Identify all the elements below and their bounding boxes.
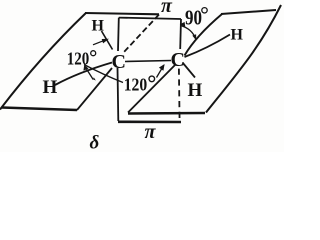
svg-text:π: π	[161, 0, 173, 17]
arc 120 upper: piece above label with arrowhead	[93, 40, 106, 45]
arrowhead to C-C bond (lower 120)	[159, 64, 165, 71]
left plane right edge lower	[77, 68, 112, 110]
arrowhead 90 arc lower end	[192, 34, 196, 40]
C-C sigma bond	[125, 61, 171, 62]
right plane left edge upper	[185, 14, 223, 56]
bond C1 to lower-left H	[55, 63, 112, 86]
arrowhead at top of small arrow (120)	[83, 65, 88, 71]
bond C1 to upper-left H	[102, 31, 113, 50]
right plane left edge lower	[128, 64, 176, 113]
pi box right edge upper	[179, 19, 182, 49]
arrowhead 90 arc upper end	[180, 22, 186, 27]
svg-text:π: π	[145, 121, 157, 143]
pi box top edge	[119, 18, 181, 19]
arrow from lower 120 label to C-C bond	[157, 65, 164, 77]
svg-text:H: H	[43, 77, 58, 98]
svg-text:H: H	[188, 80, 203, 101]
pi box bottom edge	[118, 121, 181, 124]
svg-text:δ: δ	[90, 133, 100, 153]
svg-text:H: H	[231, 27, 244, 44]
svg-text:120: 120	[124, 75, 148, 95]
svg-text:90: 90	[185, 6, 202, 30]
big arc under C1	[84, 65, 123, 83]
left plane right edge upper	[124, 15, 159, 53]
bond C2 to upper-right H	[185, 35, 231, 58]
right plane right edge	[206, 5, 281, 113]
pi box right edge lower dashed	[178, 69, 181, 122]
svg-text:H: H	[92, 18, 105, 35]
left plane bottom edge	[2, 108, 77, 111]
arrowhead on upper bond (120)	[102, 39, 109, 44]
left plane left edge	[0, 13, 86, 109]
pi box left edge lower	[117, 68, 120, 121]
bond C2 to lower-right H	[183, 63, 196, 78]
right plane bottom edge	[128, 112, 205, 115]
svg-text:C: C	[112, 51, 126, 73]
90 deg arc	[181, 26, 196, 39]
arc 120 upper: piece below label to lower bond	[86, 68, 94, 80]
pi box left edge upper	[117, 18, 120, 51]
svg-text:C: C	[171, 49, 185, 71]
right plane top edge	[221, 10, 276, 14]
left plane top edge	[85, 13, 159, 14]
svg-text:120: 120	[67, 49, 90, 69]
small barb at arrow bottom	[93, 77, 96, 80]
